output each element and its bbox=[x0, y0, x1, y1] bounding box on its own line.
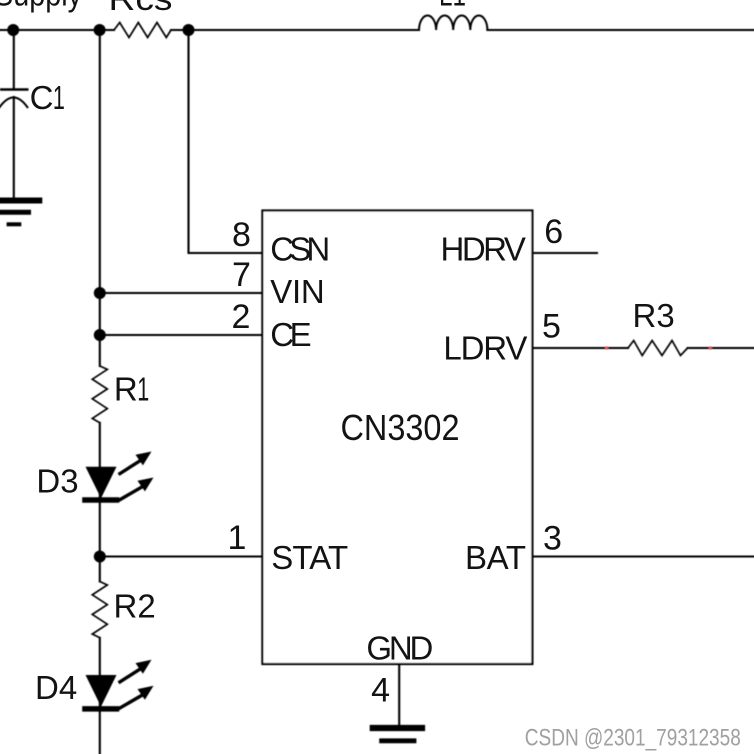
svg-text:STAT: STAT bbox=[271, 539, 348, 576]
svg-text:1: 1 bbox=[137, 370, 149, 407]
svg-text:C: C bbox=[30, 79, 54, 116]
svg-text:D3: D3 bbox=[36, 462, 78, 499]
svg-text:L1: L1 bbox=[439, 0, 466, 13]
svg-text:CSDN @2301_79312358: CSDN @2301_79312358 bbox=[525, 724, 741, 751]
svg-text:GND: GND bbox=[366, 630, 433, 667]
svg-text:Rcs: Rcs bbox=[109, 0, 173, 17]
svg-text:6: 6 bbox=[544, 213, 563, 251]
svg-text:1: 1 bbox=[228, 519, 247, 557]
svg-text:LDRV: LDRV bbox=[443, 330, 527, 367]
svg-text:8: 8 bbox=[232, 216, 251, 254]
svg-text:4: 4 bbox=[371, 672, 390, 710]
svg-text:CN3302: CN3302 bbox=[341, 407, 460, 448]
svg-text:HDRV: HDRV bbox=[441, 231, 526, 268]
svg-text:R2: R2 bbox=[114, 588, 156, 625]
svg-text:2: 2 bbox=[232, 298, 251, 336]
svg-text:7: 7 bbox=[232, 256, 251, 294]
svg-text:CE: CE bbox=[270, 316, 312, 353]
svg-text:CSN: CSN bbox=[270, 231, 330, 268]
svg-text:5: 5 bbox=[542, 307, 561, 345]
svg-text:BAT: BAT bbox=[465, 539, 526, 576]
svg-text:R3: R3 bbox=[633, 297, 675, 334]
svg-text:3: 3 bbox=[543, 520, 562, 558]
svg-text:D4: D4 bbox=[35, 669, 77, 706]
svg-text:Supply: Supply bbox=[0, 0, 82, 13]
svg-text:1: 1 bbox=[53, 79, 65, 116]
svg-text:R: R bbox=[114, 370, 138, 407]
svg-text:VIN: VIN bbox=[270, 273, 325, 310]
